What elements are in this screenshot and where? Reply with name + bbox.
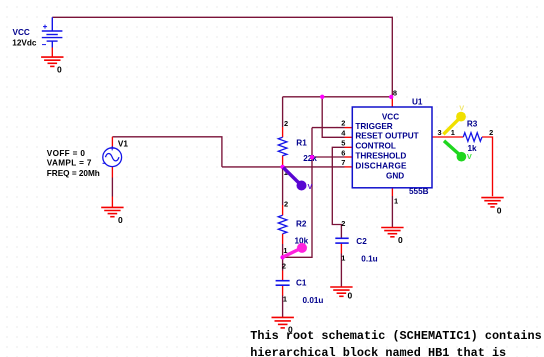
wire V1 bottom stub	[111, 167, 113, 178]
wire threshold to pin6	[312, 156, 345, 158]
ground 0 under pin1	[381, 228, 403, 237]
svg-text:VCC: VCC	[382, 113, 399, 122]
wire output to R3	[432, 136, 463, 138]
svg-text:GND: GND	[386, 172, 404, 181]
wire C1 bottom stub	[282, 285, 284, 295]
wire C1 top stub	[282, 271, 284, 281]
sine source V1	[103, 146, 122, 167]
svg-text:VCC: VCC	[13, 28, 30, 37]
wire trigger net vertical	[283, 128, 312, 258]
svg-text:2: 2	[489, 128, 493, 137]
svg-text:2: 2	[282, 261, 286, 270]
op-amp U1 555 timer box	[352, 107, 432, 188]
voltage marker V yellow	[443, 103, 466, 134]
svg-text:R3: R3	[467, 119, 478, 128]
wire C2 bottom stub	[340, 243, 342, 253]
svg-text:2: 2	[341, 119, 345, 128]
svg-text:0: 0	[118, 215, 123, 225]
svg-text:R2: R2	[296, 220, 307, 229]
resistor R1	[278, 137, 287, 155]
svg-text:THRESHOLD: THRESHOLD	[355, 152, 406, 161]
wire VCC down to R1	[282, 97, 284, 127]
wire pin1 to ground	[391, 196, 393, 228]
wire R2 top stub	[282, 205, 284, 215]
wire battery to ground	[51, 48, 53, 58]
wire pin7 stub	[345, 166, 353, 168]
wire VCC top rail	[52, 17, 392, 97]
voltage marker V magenta	[283, 243, 307, 257]
wire R2 to C1	[282, 244, 284, 271]
wire pin8 stub	[391, 97, 393, 107]
wire C2 to ground	[340, 254, 342, 288]
svg-text:DISCHARGE: DISCHARGE	[355, 162, 407, 171]
svg-text:0: 0	[497, 206, 502, 216]
svg-text:V: V	[308, 182, 313, 191]
wire pin4 stub	[345, 136, 353, 138]
svg-text:4: 4	[341, 129, 346, 138]
svg-text:C2: C2	[356, 237, 367, 246]
wire R2 bottom stub	[282, 234, 284, 244]
wire discharge row y167	[222, 166, 345, 168]
resistor R3	[463, 133, 482, 142]
junction trigger threshold node	[310, 155, 314, 159]
svg-text:VAMPL = 7: VAMPL = 7	[47, 158, 92, 167]
svg-text:7: 7	[341, 158, 345, 167]
svg-text:555B: 555B	[409, 187, 429, 196]
svg-text:1: 1	[394, 196, 398, 205]
svg-text:RESET OUTPUT: RESET OUTPUT	[355, 132, 418, 141]
ground 0 under V1	[101, 207, 123, 216]
svg-text:V1: V1	[118, 139, 128, 148]
ground 0 under R3	[481, 198, 503, 207]
svg-text:3: 3	[438, 128, 442, 137]
wire R1 top stub	[282, 127, 284, 137]
svg-text:0: 0	[348, 291, 353, 301]
wire control net to C2	[332, 147, 344, 238]
resistor R2	[278, 215, 287, 234]
svg-text:1: 1	[451, 128, 455, 137]
voltage marker V green	[444, 141, 472, 162]
wire V1 to ground	[111, 178, 113, 197]
svg-text:6: 6	[341, 148, 345, 157]
svg-text:hierarchical block named HB1 t: hierarchical block named HB1 that is	[250, 346, 506, 357]
svg-text:2: 2	[284, 119, 288, 128]
svg-text:TRIGGER: TRIGGER	[355, 122, 392, 131]
svg-text:R1: R1	[296, 139, 307, 148]
svg-text:0.1u: 0.1u	[361, 254, 377, 263]
svg-text:This root schematic (SCHEMATIC: This root schematic (SCHEMATIC1) contain…	[250, 329, 544, 343]
svg-text:V: V	[467, 152, 472, 161]
junction R1 R2 discharge node	[280, 165, 284, 169]
junction R2 C1 node	[280, 255, 284, 259]
svg-text:0: 0	[57, 64, 62, 74]
capacitor C1	[276, 281, 290, 286]
wire C1 to ground	[282, 296, 284, 318]
wire pin1 stub	[391, 188, 393, 196]
svg-text:0: 0	[398, 235, 403, 245]
ground 0 under battery	[41, 57, 63, 66]
wire V1 ground stub	[111, 197, 113, 208]
svg-text:22k: 22k	[303, 154, 317, 163]
wire junction to R2	[282, 167, 284, 205]
svg-text:1: 1	[283, 294, 287, 303]
svg-text:CONTROL: CONTROL	[355, 142, 395, 151]
ground 0 under C2	[330, 287, 352, 296]
wire V1 top to discharge row	[112, 137, 221, 167]
wire pin5 stub	[345, 146, 353, 148]
wire R1 bottom stub	[282, 156, 284, 167]
wire pin6 stub	[345, 156, 353, 158]
junction at rail and reset	[320, 95, 324, 99]
wire R3 to ground	[482, 137, 493, 196]
voltage marker V violet	[283, 168, 312, 192]
wire trigger to pin2	[312, 127, 345, 129]
svg-text:2: 2	[284, 200, 288, 209]
ground 0 under C1	[272, 317, 294, 328]
svg-text:0.01u: 0.01u	[303, 296, 324, 305]
svg-text:12Vdc: 12Vdc	[12, 38, 37, 47]
capacitor C2	[335, 238, 348, 243]
wire reset net from rail	[322, 97, 344, 138]
svg-text:VOFF = 0: VOFF = 0	[47, 149, 86, 158]
svg-text:FREQ = 20Mh: FREQ = 20Mh	[47, 169, 100, 178]
wire pin2 stub	[345, 127, 353, 129]
junction at rail and pin8	[389, 95, 393, 99]
wire VCC horizontal to R1	[283, 96, 393, 98]
svg-text:8: 8	[393, 89, 397, 98]
battery VCC source	[42, 17, 63, 47]
svg-text:1: 1	[341, 253, 345, 262]
svg-text:U1: U1	[412, 97, 423, 106]
svg-text:2: 2	[341, 219, 345, 228]
wire V1 top stub	[111, 137, 113, 148]
svg-text:5: 5	[341, 139, 345, 148]
svg-text:C1: C1	[296, 279, 307, 288]
svg-text:V: V	[459, 103, 464, 112]
